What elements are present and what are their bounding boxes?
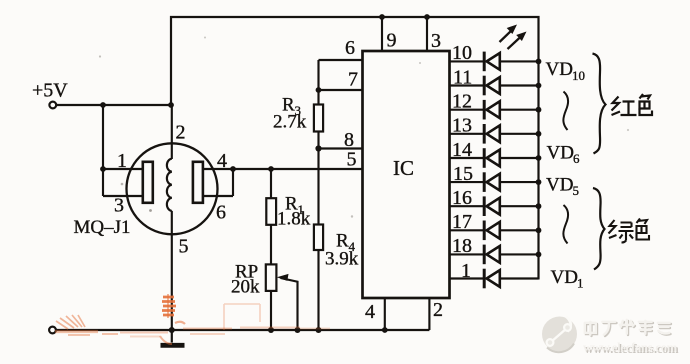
resistor R1 bbox=[266, 169, 276, 264]
label sensor pin 4 bbox=[217, 150, 227, 172]
label pin 12 bbox=[452, 91, 472, 113]
node R1 top junction bbox=[268, 166, 274, 172]
label R4 bbox=[336, 231, 356, 255]
label sensor pin 2 bbox=[176, 122, 186, 144]
svg-text:+5V: +5V bbox=[32, 80, 68, 102]
node bus VD9 bbox=[536, 83, 542, 89]
label VD5 bbox=[546, 175, 579, 199]
wire IC pin8 bbox=[319, 147, 363, 149]
node pin4 junction bbox=[230, 166, 236, 172]
svg-text:11: 11 bbox=[453, 66, 472, 88]
svg-text:6: 6 bbox=[216, 202, 226, 224]
LED VD2 bbox=[450, 245, 539, 265]
wire IC pin9 bbox=[381, 17, 383, 51]
resistor R4 bbox=[314, 149, 323, 331]
electrode left bbox=[143, 162, 153, 203]
watermark url bbox=[583, 341, 679, 357]
svg-text:13: 13 bbox=[452, 115, 472, 137]
svg-text:1: 1 bbox=[577, 276, 584, 291]
LED VD3 bbox=[450, 221, 539, 241]
ground bbox=[161, 330, 185, 345]
label sensor pin 6 bbox=[216, 202, 226, 224]
svg-text:MQ–J1: MQ–J1 bbox=[74, 217, 131, 238]
wire IC pin7 bbox=[319, 89, 363, 91]
LED VD5 bbox=[450, 172, 539, 192]
node bus VD6 bbox=[536, 155, 542, 161]
node bus VD3 bbox=[536, 227, 542, 233]
svg-text:VD: VD bbox=[551, 267, 578, 288]
svg-text:4: 4 bbox=[217, 150, 227, 172]
sensor MQ-J1 envelope bbox=[127, 143, 218, 234]
LED VD1 bbox=[450, 269, 539, 289]
svg-text:VD: VD bbox=[546, 59, 573, 80]
svg-text:6: 6 bbox=[573, 151, 580, 166]
wire sensor right pins to IC pin5 bbox=[203, 169, 363, 196]
svg-text:1.8k: 1.8k bbox=[277, 209, 311, 230]
node bus VD5 bbox=[536, 179, 542, 185]
node pin1 junction bbox=[100, 166, 106, 172]
node pin8 junction bbox=[315, 145, 321, 151]
label 2.7k bbox=[273, 112, 307, 133]
svg-text:2: 2 bbox=[176, 122, 186, 144]
label sensor pin 3 bbox=[114, 195, 124, 217]
op-amp U1 IC box bbox=[363, 51, 450, 298]
wire ground rail bbox=[56, 329, 430, 331]
LED VD8 bbox=[450, 100, 539, 120]
label IC bbox=[393, 156, 414, 180]
label pin 1 bbox=[461, 260, 471, 282]
wire IC pin4 bbox=[384, 298, 386, 330]
svg-text:www.elecfans.com: www.elecfans.com bbox=[583, 341, 678, 355]
svg-text:17: 17 bbox=[452, 211, 472, 233]
label pin 17 bbox=[452, 211, 472, 233]
svg-text:3: 3 bbox=[114, 195, 124, 217]
label pin 16 bbox=[452, 187, 472, 209]
node bus VD8 bbox=[536, 107, 542, 113]
light arrows bbox=[500, 25, 527, 50]
label pin 10 bbox=[452, 42, 472, 64]
svg-text:18: 18 bbox=[452, 235, 472, 257]
label pin 13 bbox=[452, 115, 472, 137]
svg-text:6: 6 bbox=[345, 37, 355, 59]
label VD6 bbox=[547, 143, 581, 167]
label 20k bbox=[231, 277, 260, 298]
watermark logo bbox=[542, 317, 577, 353]
wire sensor pin5 to ground rail bbox=[171, 211, 173, 330]
label green color bbox=[609, 219, 650, 243]
label pin 3 bbox=[431, 30, 441, 52]
svg-text:3.9k: 3.9k bbox=[325, 249, 359, 270]
label 1.8k bbox=[277, 209, 311, 230]
electrode right bbox=[193, 162, 203, 203]
label pin 6 bbox=[345, 37, 355, 59]
wire sensor pin2 drop bbox=[171, 105, 173, 159]
label VD1 bbox=[551, 267, 584, 291]
svg-text:16: 16 bbox=[452, 187, 472, 209]
node rail wiper junction bbox=[295, 327, 301, 333]
svg-text:5: 5 bbox=[179, 236, 189, 258]
stain marks bbox=[55, 294, 330, 344]
terminal +5V bbox=[49, 102, 56, 109]
node rail R4 junction bbox=[316, 327, 322, 333]
label pin 7 bbox=[348, 69, 358, 91]
wire top rail with right bus riser and left riser bbox=[171, 17, 539, 280]
LED VD6 bbox=[450, 148, 539, 168]
label pin 9 bbox=[387, 30, 397, 52]
squiggle red group bbox=[563, 92, 568, 131]
svg-text:5: 5 bbox=[347, 149, 357, 171]
label pin 8 bbox=[344, 129, 354, 151]
label sensor pin 5 bbox=[179, 236, 189, 258]
wire IC pin3 bbox=[426, 17, 428, 51]
resistor R3 bbox=[314, 60, 323, 149]
node pin7 junction bbox=[316, 87, 322, 93]
heater coil bbox=[167, 159, 172, 211]
node bus VD10 bbox=[536, 59, 542, 65]
label RP bbox=[235, 262, 258, 283]
brace red bbox=[593, 54, 606, 154]
label MQ-J1 bbox=[74, 217, 131, 238]
label sensor pin 1 bbox=[117, 150, 127, 172]
LED VD10 bbox=[450, 52, 539, 72]
svg-text:4: 4 bbox=[365, 301, 375, 323]
svg-text:3: 3 bbox=[431, 30, 441, 52]
label 3.9k bbox=[325, 249, 359, 270]
wire IC pin2 bbox=[428, 298, 430, 330]
label +5V bbox=[32, 80, 68, 102]
terminal ground left bbox=[49, 327, 56, 334]
svg-text:12: 12 bbox=[452, 91, 472, 113]
LED VD9 bbox=[450, 76, 539, 96]
svg-text:10: 10 bbox=[572, 68, 585, 83]
node +5V junction left bbox=[100, 102, 106, 108]
svg-text:9: 9 bbox=[387, 30, 397, 52]
node rail sensor junction bbox=[169, 327, 175, 333]
label VD10 bbox=[546, 59, 586, 83]
svg-text:10: 10 bbox=[452, 42, 472, 64]
svg-text:IC: IC bbox=[393, 156, 414, 180]
label pin 15 bbox=[453, 163, 473, 185]
label R3 bbox=[282, 95, 301, 119]
label R1 bbox=[285, 194, 304, 218]
svg-text:14: 14 bbox=[452, 139, 472, 161]
wire sensor left pins bbox=[103, 105, 143, 196]
potentiometer RP bbox=[266, 264, 298, 330]
svg-text:5: 5 bbox=[573, 183, 580, 198]
node bus VD4 bbox=[536, 203, 542, 209]
svg-text:7: 7 bbox=[348, 69, 358, 91]
node +5V junction right bbox=[168, 102, 174, 108]
squiggle green group bbox=[563, 205, 568, 244]
svg-text:20k: 20k bbox=[231, 277, 260, 298]
LED VD4 bbox=[450, 196, 539, 216]
svg-text:2: 2 bbox=[433, 299, 443, 321]
wire IC pin6 bbox=[319, 59, 363, 61]
node bus VD2 bbox=[536, 252, 542, 258]
label pin 2 bbox=[433, 299, 443, 321]
LED VD7 bbox=[450, 124, 539, 144]
svg-text:15: 15 bbox=[453, 163, 473, 185]
label pin 14 bbox=[452, 139, 472, 161]
node pin4 bottom junction bbox=[382, 327, 388, 333]
svg-text:1: 1 bbox=[461, 260, 471, 282]
wire +5V feed bbox=[56, 104, 171, 106]
svg-text:VD: VD bbox=[546, 175, 573, 196]
svg-text:1: 1 bbox=[117, 150, 127, 172]
label pin 11 bbox=[453, 66, 472, 88]
label pin 4 bbox=[365, 301, 375, 323]
node pin9 junction bbox=[379, 14, 385, 20]
label pin 18 bbox=[452, 235, 472, 257]
label red color bbox=[612, 94, 653, 115]
node bus VD7 bbox=[536, 131, 542, 137]
svg-text:VD: VD bbox=[547, 143, 574, 164]
label pin 5 bbox=[347, 149, 357, 171]
node rail R1 junction bbox=[268, 327, 274, 333]
node pin3 junction bbox=[424, 14, 430, 20]
brace green bbox=[593, 188, 605, 270]
dust specks bbox=[99, 37, 629, 218]
watermark chinese blobs bbox=[585, 320, 671, 336]
svg-text:2.7k: 2.7k bbox=[273, 112, 307, 133]
